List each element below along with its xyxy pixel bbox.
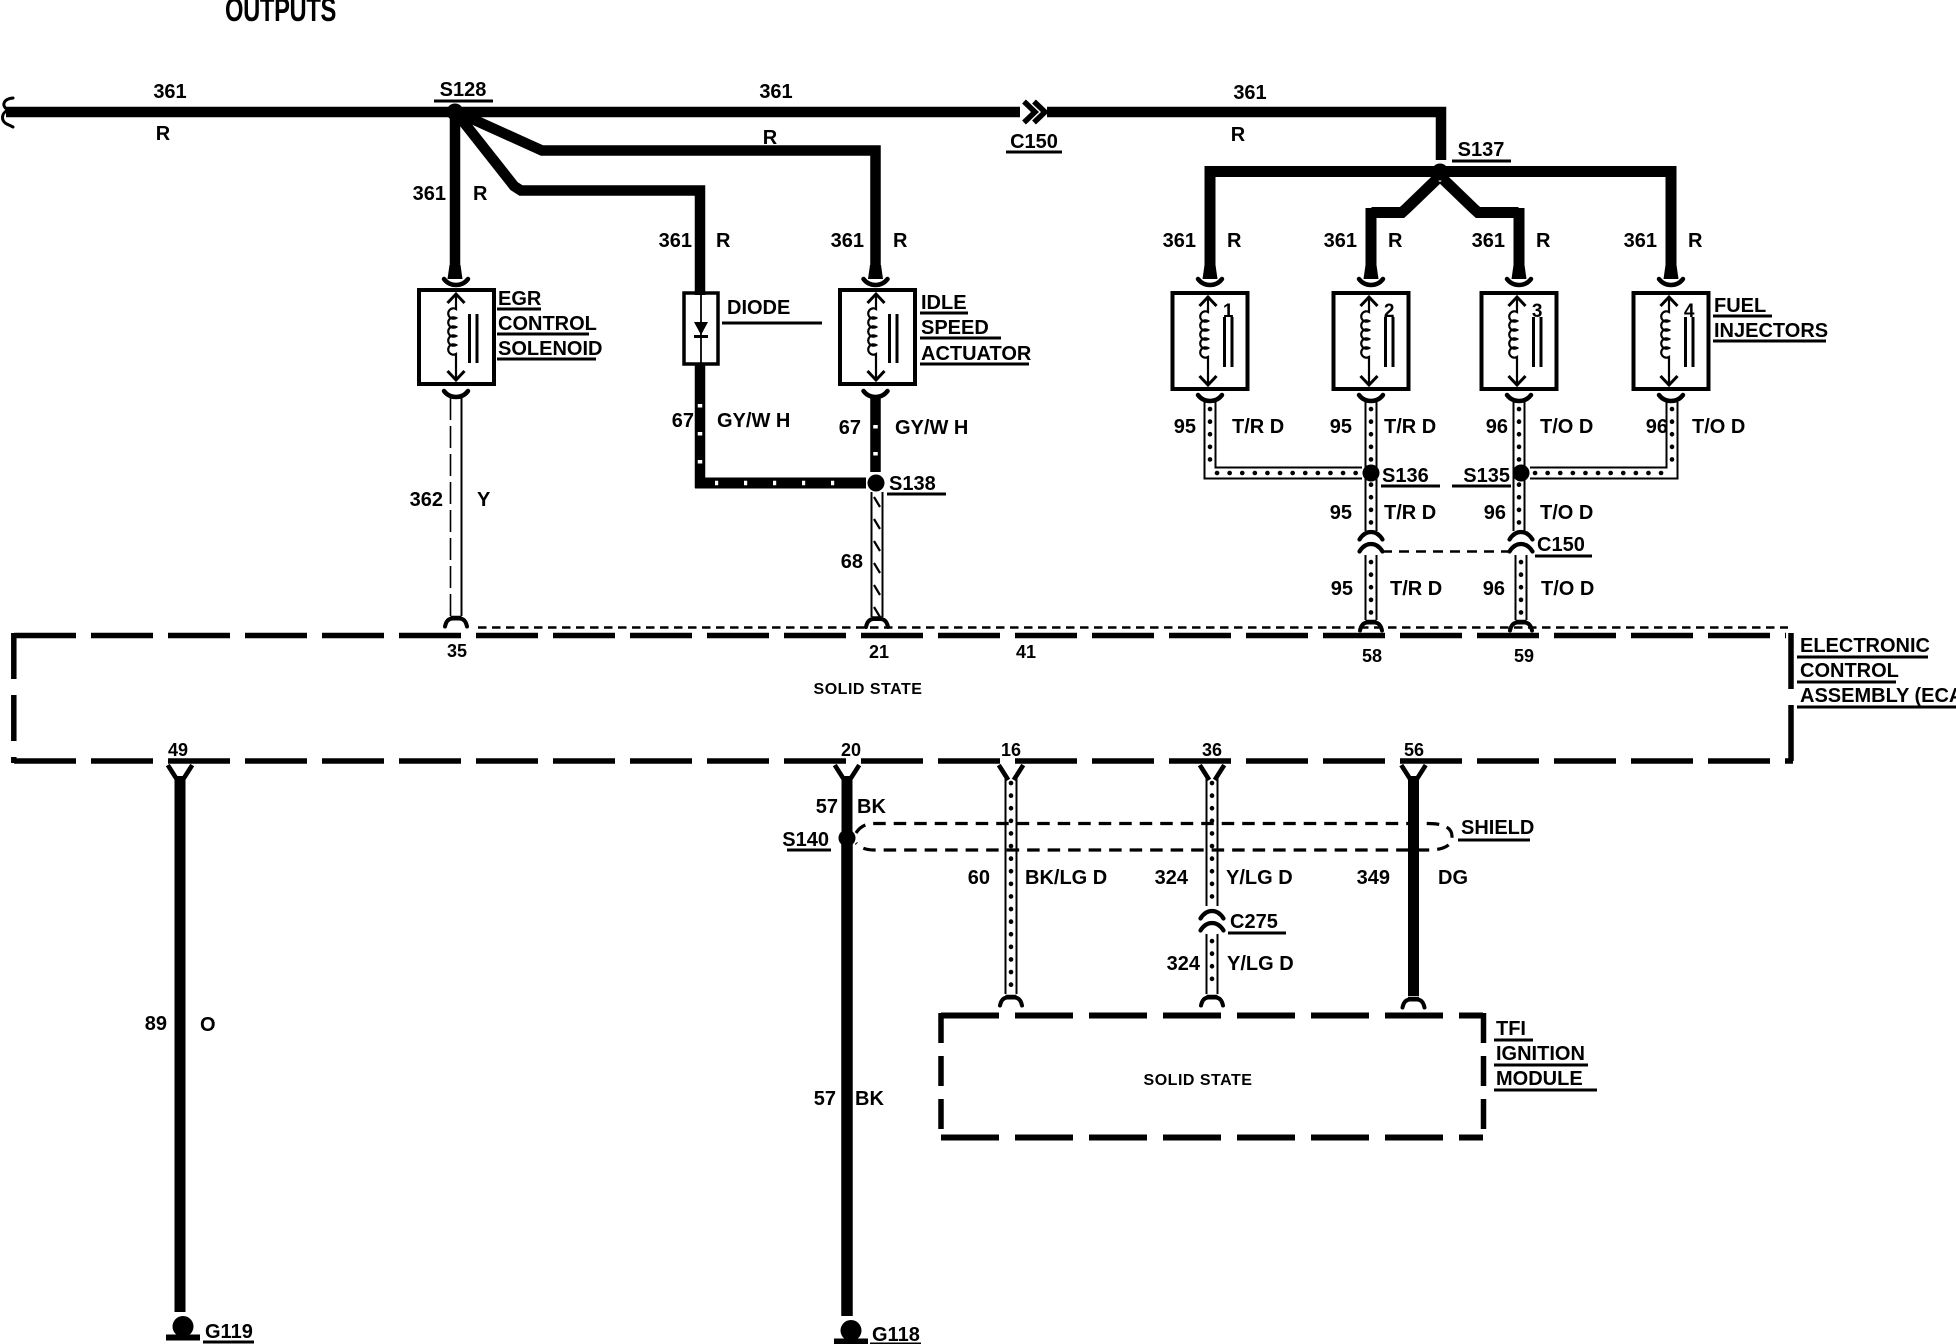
- label Y/LG D (lower): [1227, 953, 1294, 975]
- svg-text:EGR: EGR: [498, 288, 542, 310]
- wire 96 T/O D injector 3 drop: [1514, 402, 1525, 531]
- label ACTUATOR: [920, 343, 1032, 365]
- svg-text:S136: S136: [1382, 465, 1429, 487]
- ECA pin 49: [168, 740, 188, 760]
- ECA pin 36: [1202, 740, 1222, 760]
- svg-text:361: 361: [659, 230, 692, 252]
- label 96 (below S135): [1484, 502, 1506, 524]
- label BK/LG D: [1025, 867, 1107, 889]
- connector at TFI (wire 349): [1403, 998, 1425, 1008]
- connector at TFI (wire 60): [1000, 996, 1022, 1006]
- svg-text:T/O D: T/O D: [1541, 578, 1594, 600]
- svg-text:C275: C275: [1230, 911, 1278, 933]
- connector at ECA pin 16 exit: [1000, 767, 1022, 778]
- label T/O D (at pin 59): [1541, 578, 1594, 600]
- svg-text:2: 2: [1384, 301, 1395, 322]
- wire 67 GY/W H from ISA: [873, 398, 878, 472]
- wire 67 GY/W H from diode: [698, 364, 703, 488]
- svg-text:3: 3: [1532, 301, 1543, 322]
- wire 96 T/O D injector 4 to S135: [1530, 402, 1678, 479]
- svg-text:95: 95: [1330, 502, 1352, 524]
- label R (ISA drop): [893, 230, 908, 252]
- wire 89 O: [175, 776, 186, 1312]
- connector at injector 1 top: [1198, 265, 1222, 285]
- svg-text:21: 21: [869, 642, 889, 662]
- svg-text:T/R D: T/R D: [1232, 416, 1284, 438]
- EGR solenoid core: [470, 314, 478, 363]
- label 361 (injector 2 drop): [1324, 230, 1357, 252]
- label TFI: [1494, 1018, 1533, 1040]
- wire 57 BK lower: [841, 838, 853, 1316]
- wire S128 branch to EGR solenoid: [450, 115, 461, 277]
- label 95 (at pin 58): [1331, 578, 1353, 600]
- label SPEED: [920, 317, 1001, 339]
- label R (middle): [763, 127, 778, 149]
- wire 361 R main feed (left segment): [6, 107, 1020, 118]
- label 57 (upper): [816, 796, 838, 818]
- svg-text:IGNITION: IGNITION: [1496, 1043, 1585, 1065]
- svg-text:67: 67: [672, 410, 694, 432]
- label 361 (diode drop): [659, 230, 692, 252]
- svg-text:362: 362: [410, 489, 443, 511]
- svg-text:R: R: [473, 183, 488, 205]
- ground G118: [834, 1320, 868, 1344]
- label 96 (inj3): [1486, 416, 1508, 438]
- svg-text:361: 361: [413, 183, 446, 205]
- svg-text:324: 324: [1167, 953, 1201, 975]
- connector at ECA pin 21: [866, 618, 888, 628]
- label SOLENOID: [497, 338, 602, 360]
- diode symbol: [694, 293, 708, 364]
- label 324 (lower): [1167, 953, 1201, 975]
- injector 4 core: [1686, 317, 1694, 367]
- connector at ISA top: [864, 265, 888, 285]
- svg-text:96: 96: [1486, 416, 1508, 438]
- wire 95 T/R D to ECA pin 58: [1366, 555, 1377, 620]
- svg-text:361: 361: [831, 230, 864, 252]
- connector at injector 4 bottom: [1659, 395, 1683, 401]
- connector at EGR solenoid bottom: [444, 391, 468, 397]
- TFI module top border: [941, 1013, 1483, 1019]
- ECA box bottom border: [14, 758, 1793, 764]
- svg-text:361: 361: [1324, 230, 1357, 252]
- label R (right): [1231, 124, 1246, 146]
- svg-text:R: R: [1688, 230, 1703, 252]
- label 349: [1357, 867, 1390, 889]
- label O: [200, 1014, 216, 1036]
- label 95 (inj1): [1174, 416, 1196, 438]
- svg-text:349: 349: [1357, 867, 1390, 889]
- label DIODE: [722, 297, 822, 323]
- svg-text:SOLENOID: SOLENOID: [498, 338, 602, 360]
- injector 2 coil: [1361, 297, 1378, 385]
- injector 1 coil: [1200, 297, 1217, 385]
- label C150 (injector harness): [1535, 534, 1592, 556]
- ECA pin 41: [1016, 642, 1036, 662]
- label 89: [145, 1013, 167, 1035]
- label T/R D (at pin 58): [1390, 578, 1442, 600]
- label C150: [1006, 131, 1062, 153]
- svg-text:35: 35: [447, 641, 467, 661]
- svg-text:GY/W H: GY/W H: [895, 417, 968, 439]
- connector at TFI (wire 324): [1201, 996, 1223, 1006]
- label 361 (left): [153, 81, 186, 103]
- svg-text:MODULE: MODULE: [1496, 1068, 1583, 1090]
- label 361 (middle): [759, 81, 792, 103]
- injector 2 core: [1386, 317, 1394, 367]
- svg-text:ACTUATOR: ACTUATOR: [921, 343, 1032, 365]
- label 67 (ISA): [839, 417, 861, 439]
- svg-text:96: 96: [1646, 416, 1668, 438]
- wire 362 Y: [451, 398, 462, 616]
- svg-text:S135: S135: [1463, 465, 1510, 487]
- label INJECTORS: [1713, 320, 1828, 342]
- ECA pin 59: [1514, 646, 1534, 666]
- connector at injector 3 bottom: [1507, 395, 1531, 401]
- svg-text:58: 58: [1362, 646, 1382, 666]
- svg-text:DG: DG: [1438, 867, 1468, 889]
- svg-text:SOLID STATE: SOLID STATE: [814, 681, 923, 698]
- svg-text:T/R D: T/R D: [1384, 416, 1436, 438]
- svg-text:S137: S137: [1458, 139, 1505, 161]
- splice S135: [1452, 465, 1530, 488]
- label GY/W H (diode): [717, 410, 790, 432]
- svg-text:68: 68: [841, 551, 863, 573]
- label T/R D (inj1): [1232, 416, 1284, 438]
- label 68: [841, 551, 863, 573]
- svg-text:CONTROL: CONTROL: [498, 313, 597, 335]
- svg-text:95: 95: [1330, 416, 1352, 438]
- svg-text:R: R: [1227, 230, 1242, 252]
- injector 1 pin number: [1223, 301, 1234, 322]
- svg-text:FUEL: FUEL: [1714, 295, 1766, 317]
- connector at ECA pin 36 exit: [1201, 767, 1223, 778]
- svg-text:59: 59: [1514, 646, 1534, 666]
- svg-text:G119: G119: [205, 1321, 253, 1343]
- diode box: [684, 293, 718, 364]
- injector 1 core: [1225, 317, 1233, 367]
- svg-text:T/R D: T/R D: [1384, 502, 1436, 524]
- ECA pin 56: [1404, 740, 1424, 760]
- svg-text:G118: G118: [872, 1324, 920, 1344]
- label 67 (diode): [672, 410, 694, 432]
- svg-text:IDLE: IDLE: [921, 292, 967, 314]
- label R (injector 1 drop): [1227, 230, 1242, 252]
- connector at ECA pin 20 exit: [836, 767, 858, 778]
- label BK (upper): [857, 796, 886, 818]
- svg-text:S128: S128: [440, 79, 487, 101]
- injector 3 coil: [1509, 297, 1526, 385]
- svg-text:56: 56: [1404, 740, 1424, 760]
- connector at injector 4 top: [1659, 265, 1683, 285]
- svg-text:T/O D: T/O D: [1540, 502, 1593, 524]
- connector at ECA pin 35: [445, 617, 467, 627]
- label R (EGR drop): [473, 183, 488, 205]
- fuel injector 4 box: [1634, 293, 1709, 389]
- ECA box top border: [14, 633, 1786, 639]
- fuel injector 2 box: [1334, 293, 1409, 389]
- TFI module left border: [938, 1013, 944, 1137]
- svg-text:C150: C150: [1010, 131, 1058, 153]
- svg-text:BK: BK: [855, 1088, 884, 1110]
- wire 60 BK/LG D: [1006, 776, 1017, 994]
- wire S137 feed rail: [1210, 166, 1671, 279]
- svg-text:R: R: [1536, 230, 1551, 252]
- label 361 (injector 3 drop): [1472, 230, 1505, 252]
- wire 95 T/R D injector 2 drop: [1366, 402, 1377, 531]
- injector 3 core: [1534, 317, 1542, 367]
- svg-text:ASSEMBLY (ECA): ASSEMBLY (ECA): [1800, 685, 1956, 707]
- ECA pin 21: [869, 642, 889, 662]
- ECA box inner dashed line: [478, 626, 1788, 628]
- ECA pin 58: [1362, 646, 1382, 666]
- svg-text:T/R D: T/R D: [1390, 578, 1442, 600]
- connector at ECA pin 59: [1510, 621, 1532, 631]
- svg-text:TFI: TFI: [1496, 1018, 1526, 1040]
- svg-text:GY/W H: GY/W H: [717, 410, 790, 432]
- svg-text:57: 57: [816, 796, 838, 818]
- svg-text:361: 361: [1624, 230, 1657, 252]
- connector at ISA bottom: [864, 391, 888, 397]
- label Y: [477, 489, 491, 511]
- wire 95 T/R D injector 1 to S136: [1205, 402, 1363, 479]
- wire S137 branch injector 2: [1371, 179, 1437, 279]
- svg-text:SPEED: SPEED: [921, 317, 989, 339]
- svg-text:T/O D: T/O D: [1692, 416, 1745, 438]
- label SOLID STATE (ECA): [814, 681, 923, 698]
- idle speed actuator box: [840, 290, 915, 384]
- fuel injector 1 box: [1173, 293, 1248, 389]
- svg-text:DIODE: DIODE: [727, 297, 790, 319]
- svg-text:R: R: [156, 123, 171, 145]
- svg-text:Y/LG D: Y/LG D: [1226, 867, 1293, 889]
- label R (diode drop): [716, 230, 731, 252]
- svg-text:BK/LG D: BK/LG D: [1025, 867, 1107, 889]
- wire S137 branch injector 3: [1443, 179, 1519, 279]
- fuel injector 3 box: [1482, 293, 1557, 389]
- label T/O D (inj3): [1540, 416, 1593, 438]
- label 361 (injector 4 drop): [1624, 230, 1657, 252]
- connector C150 (wire 95): [1360, 532, 1383, 552]
- label FUEL: [1713, 295, 1772, 317]
- svg-text:20: 20: [841, 740, 861, 760]
- TFI module right border: [1481, 1013, 1487, 1137]
- label CONTROL (ECA): [1797, 660, 1899, 682]
- svg-text:67: 67: [839, 417, 861, 439]
- connector C150 link line: [1382, 550, 1512, 553]
- label T/O D (inj4): [1692, 416, 1745, 438]
- svg-text:96: 96: [1484, 502, 1506, 524]
- svg-text:INJECTORS: INJECTORS: [1714, 320, 1828, 342]
- ISA core: [890, 314, 898, 363]
- svg-text:T/O D: T/O D: [1540, 416, 1593, 438]
- svg-text:1: 1: [1223, 301, 1234, 322]
- label G119: [203, 1321, 254, 1343]
- svg-text:57: 57: [814, 1088, 836, 1110]
- svg-text:OUTPUTS: OUTPUTS: [225, 0, 336, 29]
- label T/O D (below S135): [1540, 502, 1593, 524]
- connector at ECA pin 58: [1360, 621, 1382, 631]
- shield dashed outline: [856, 824, 1452, 851]
- svg-text:ELECTRONIC: ELECTRONIC: [1800, 635, 1930, 657]
- wire S128 branch to idle speed actuator: [459, 113, 876, 279]
- ECA pin 16: [1001, 740, 1021, 760]
- injector 2 pin number: [1384, 301, 1395, 322]
- connector at injector 2 bottom: [1359, 395, 1383, 401]
- svg-text:SHIELD: SHIELD: [1461, 817, 1534, 839]
- svg-text:16: 16: [1001, 740, 1021, 760]
- label IGNITION: [1494, 1043, 1588, 1065]
- ECA pin 20: [841, 740, 861, 760]
- label 361 (ISA drop): [831, 230, 864, 252]
- ECA box left border: [11, 633, 17, 763]
- svg-text:324: 324: [1155, 867, 1189, 889]
- label G118: [870, 1324, 921, 1344]
- label 57 (lower): [814, 1088, 836, 1110]
- TFI module bottom border: [941, 1135, 1483, 1141]
- svg-text:36: 36: [1202, 740, 1222, 760]
- label 361 (EGR drop): [413, 183, 446, 205]
- injector 4 pin number: [1684, 301, 1695, 322]
- svg-text:361: 361: [1163, 230, 1196, 252]
- ground G119: [166, 1316, 200, 1341]
- wire S128 branch to diode: [458, 115, 700, 295]
- label ASSEMBLY (ECA): [1797, 685, 1956, 707]
- splice S128: [434, 79, 493, 121]
- ECA pin 35: [447, 641, 467, 661]
- wire 96 T/O D to ECA pin 59: [1516, 555, 1527, 620]
- title OUTPUTS: [225, 0, 336, 29]
- svg-text:49: 49: [168, 740, 188, 760]
- label R (injector 3 drop): [1536, 230, 1551, 252]
- ISA coil: [868, 294, 885, 380]
- wire 361 R main feed (right segment to S137): [1047, 112, 1441, 160]
- label 96 (at pin 59): [1483, 578, 1505, 600]
- connector at injector 3 top: [1507, 265, 1531, 285]
- wire 324 Y/LG D upper: [1207, 776, 1218, 906]
- svg-text:Y/LG D: Y/LG D: [1227, 953, 1294, 975]
- connector at ECA pin 56 exit: [1403, 767, 1425, 778]
- svg-text:R: R: [893, 230, 908, 252]
- label Y/LG D (upper): [1226, 867, 1293, 889]
- svg-text:89: 89: [145, 1013, 167, 1035]
- label DG: [1438, 867, 1468, 889]
- svg-text:60: 60: [968, 867, 990, 889]
- injector 3 pin number: [1532, 301, 1543, 322]
- svg-text:361: 361: [153, 81, 186, 103]
- svg-text:96: 96: [1483, 578, 1505, 600]
- label ELECTRONIC: [1797, 635, 1930, 657]
- svg-text:361: 361: [1472, 230, 1505, 252]
- splice S140: [782, 829, 855, 851]
- wire 324 Y/LG D lower: [1207, 934, 1218, 994]
- label EGR: [497, 288, 542, 310]
- svg-text:95: 95: [1174, 416, 1196, 438]
- label C275: [1228, 911, 1286, 933]
- connector C275: [1201, 911, 1224, 931]
- label 95 (below S136): [1330, 502, 1352, 524]
- label GY/W H (ISA): [895, 417, 968, 439]
- label SOLID STATE (TFI): [1144, 1072, 1253, 1089]
- label 324 (upper): [1155, 867, 1189, 889]
- svg-text:BK: BK: [857, 796, 886, 818]
- svg-text:Y: Y: [477, 489, 491, 511]
- splice S137: [1432, 139, 1512, 181]
- svg-text:S138: S138: [889, 473, 936, 495]
- EGR control solenoid box: [419, 290, 494, 384]
- label SHIELD: [1458, 817, 1534, 840]
- svg-text:C150: C150: [1537, 534, 1585, 556]
- wire 349 DG: [1408, 776, 1419, 996]
- label CONTROL: [497, 313, 597, 335]
- svg-text:S140: S140: [782, 829, 829, 851]
- label 96 (inj4): [1646, 416, 1668, 438]
- wire 67 GY/W H horizontal run to S138: [695, 481, 866, 486]
- connector at EGR solenoid top: [444, 265, 468, 285]
- ECA box right border: [1788, 633, 1794, 763]
- label R (left): [156, 123, 171, 145]
- label R (injector 2 drop): [1388, 230, 1403, 252]
- label R (injector 4 drop): [1688, 230, 1703, 252]
- svg-text:R: R: [1388, 230, 1403, 252]
- connector C150 (wire 96): [1510, 532, 1533, 552]
- svg-text:R: R: [1231, 124, 1246, 146]
- label T/R D (below S136): [1384, 502, 1436, 524]
- wire end squiggle: [3, 98, 14, 127]
- svg-text:41: 41: [1016, 642, 1036, 662]
- label 362: [410, 489, 443, 511]
- label 60: [968, 867, 990, 889]
- label T/R D (inj2): [1384, 416, 1436, 438]
- EGR solenoid coil: [448, 294, 465, 380]
- label BK (lower): [855, 1088, 884, 1110]
- label 361 (injector 1 drop): [1163, 230, 1196, 252]
- wire 68 to ECA pin 21: [872, 492, 883, 617]
- connector C150 (main wire chevrons): [1024, 102, 1045, 123]
- svg-text:361: 361: [1233, 82, 1266, 104]
- label IDLE: [920, 292, 968, 314]
- connector at ECA pin 49 exit: [169, 767, 191, 778]
- svg-text:CONTROL: CONTROL: [1800, 660, 1899, 682]
- label 361 (right): [1233, 82, 1266, 104]
- svg-text:SOLID STATE: SOLID STATE: [1144, 1072, 1253, 1089]
- label MODULE: [1494, 1068, 1597, 1090]
- connector at injector 1 bottom: [1198, 395, 1222, 401]
- injector 4 coil: [1661, 297, 1678, 385]
- svg-text:R: R: [716, 230, 731, 252]
- svg-text:O: O: [200, 1014, 216, 1036]
- wire 57 BK upper: [842, 776, 853, 838]
- label 95 (inj2): [1330, 416, 1352, 438]
- svg-text:95: 95: [1331, 578, 1353, 600]
- svg-text:361: 361: [759, 81, 792, 103]
- svg-text:4: 4: [1684, 301, 1695, 322]
- connector at injector 2 top: [1359, 265, 1383, 285]
- splice S136: [1363, 465, 1441, 488]
- splice S138: [868, 473, 947, 495]
